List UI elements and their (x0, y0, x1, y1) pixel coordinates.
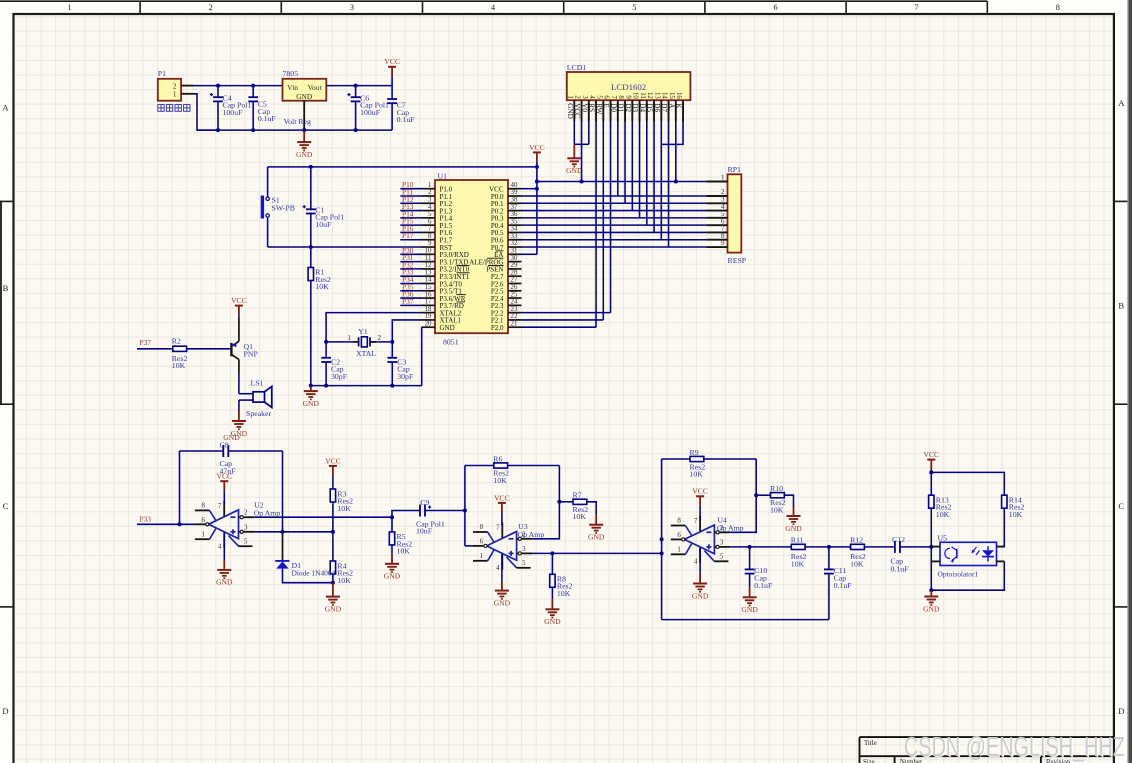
resistor R10 (756, 494, 770, 496)
opamp U4 (684, 525, 714, 554)
svg-text:5: 5 (244, 539, 248, 546)
wire XTAL2 to crystal (326, 313, 421, 342)
wire P0 rows mcu to RP1 (522, 195, 707, 197)
transistor Q1 PNP (230, 343, 232, 356)
svg-text:R7: R7 (573, 491, 582, 500)
title block (860, 736, 1114, 738)
wire VCC row to RP1 pin1 (537, 181, 706, 183)
svg-text:R12: R12 (850, 536, 863, 545)
svg-text:4: 4 (428, 204, 432, 211)
svg-text:9: 9 (428, 240, 432, 247)
svg-text:Speaker: Speaker (246, 409, 272, 418)
svg-text:1: 1 (480, 553, 484, 560)
label dianyuan-jiekou (158, 105, 164, 112)
svg-text:P37: P37 (402, 297, 414, 306)
svg-text:VCC: VCC (692, 487, 708, 496)
svg-text:12: 12 (425, 262, 432, 269)
svg-text:2: 2 (173, 82, 177, 90)
svg-text:U1: U1 (438, 171, 448, 180)
svg-text:GND: GND (923, 604, 940, 613)
svg-text:10K: 10K (337, 504, 351, 513)
svg-text:10uF: 10uF (315, 220, 332, 229)
svg-text:1: 1 (173, 91, 177, 99)
mcu U1 left pins (422, 188, 436, 190)
wire D1 to R4 bottom (283, 569, 333, 583)
wire P37 to R2 (137, 348, 173, 350)
svg-text:B: B (3, 283, 9, 293)
wire C8 right vertical to pin3 row (282, 451, 284, 532)
capacitor C4 (217, 86, 219, 98)
svg-text:10K: 10K (791, 559, 805, 568)
wire lcd E to P2.2 (610, 122, 612, 313)
svg-text:10K: 10K (770, 506, 784, 515)
svg-text:0.1uF: 0.1uF (397, 115, 416, 124)
svg-text:D3: D3 (631, 103, 639, 112)
svg-text:31: 31 (511, 248, 518, 255)
wire R1 to ground rail (310, 281, 312, 386)
svg-text:C9: C9 (420, 498, 429, 507)
resistor R3 (330, 489, 335, 502)
svg-text:39: 39 (511, 189, 518, 196)
svg-text:24: 24 (511, 299, 518, 306)
svg-text:8: 8 (617, 95, 624, 99)
wire VCC vertical at mcu (536, 162, 538, 254)
wire lcd RS to P2.0 (595, 122, 597, 328)
svg-text:17: 17 (425, 299, 432, 306)
svg-text:29: 29 (511, 262, 518, 269)
resistor R6 feedback (465, 465, 494, 467)
wire lcd pin16 K (661, 122, 683, 145)
wire U3 output row (532, 552, 661, 554)
ground GND below R8 (551, 599, 553, 609)
svg-text:A: A (667, 103, 675, 109)
svg-text:0.1uF: 0.1uF (891, 564, 910, 573)
wire mcu pin40 VCC row (522, 188, 537, 190)
opto pins (931, 546, 940, 548)
svg-text:7: 7 (428, 226, 432, 233)
svg-text:8: 8 (1056, 3, 1060, 12)
wire P1 pin1 down (194, 94, 219, 130)
svg-text:5: 5 (632, 3, 636, 12)
rp1 pin 1 (706, 181, 727, 183)
svg-text:32: 32 (511, 240, 518, 247)
svg-text:P17: P17 (402, 231, 414, 240)
ground GND below R5 (391, 554, 393, 564)
svg-text:D4: D4 (638, 103, 646, 112)
svg-text:GND: GND (216, 578, 233, 587)
svg-text:B: B (1118, 301, 1124, 311)
wire R11 to R12 (805, 546, 851, 548)
opto light arrows (973, 547, 977, 552)
svg-text:1: 1 (428, 182, 432, 189)
wire opto right bottom rail (931, 561, 1004, 590)
svg-text:19: 19 (425, 313, 432, 320)
svg-text:33: 33 (511, 233, 518, 240)
resistor R12 (851, 544, 865, 549)
svg-text:7: 7 (218, 503, 222, 510)
wire R13 to node (930, 508, 932, 547)
svg-text:11: 11 (639, 92, 646, 99)
svg-text:GND: GND (296, 92, 313, 101)
svg-text:34: 34 (511, 226, 518, 233)
lcd LCD1 body (567, 72, 691, 100)
svg-text:CSDN @ENGLISH_HHZ: CSDN @ENGLISH_HHZ (904, 731, 1125, 762)
capacitor C3 (391, 342, 393, 358)
svg-text:GND: GND (440, 324, 455, 332)
wire P1 pin2 to regulator (194, 85, 283, 87)
svg-text:10K: 10K (315, 282, 329, 291)
svg-text:30pF: 30pF (397, 372, 414, 381)
svg-text:5: 5 (522, 560, 526, 567)
svg-text:Op Amp: Op Amp (518, 530, 545, 539)
opamp U2 (209, 510, 239, 539)
svg-text:E: E (602, 103, 610, 108)
opamp U3 (487, 532, 517, 561)
ground GND below C10 (749, 587, 751, 597)
svg-text:35: 35 (511, 218, 518, 225)
svg-text:10K: 10K (690, 470, 704, 479)
svg-text:1: 1 (202, 532, 206, 539)
svg-text:28: 28 (511, 269, 518, 276)
svg-text:23: 23 (511, 306, 518, 313)
svg-text:PNP: PNP (244, 350, 259, 359)
svg-text:LS1: LS1 (251, 379, 264, 388)
wire mcu pin31 EA row (522, 253, 537, 255)
svg-text:R10: R10 (770, 484, 783, 493)
svg-text:7805: 7805 (283, 69, 299, 78)
resistor R8 (551, 553, 553, 574)
svg-text:V0: V0 (580, 103, 588, 112)
diode D1 (282, 532, 284, 561)
svg-text:7: 7 (694, 518, 698, 525)
svg-text:10K: 10K (1009, 510, 1023, 519)
svg-text:VCC: VCC (573, 103, 581, 118)
wire Q1 collector to speaker (238, 359, 240, 373)
svg-text:P1: P1 (158, 69, 166, 78)
svg-text:15: 15 (668, 92, 675, 99)
svg-text:22: 22 (511, 313, 518, 320)
wire feedback left vertical U4 (661, 459, 663, 620)
svg-text:RS: RS (588, 103, 596, 112)
svg-text:K: K (675, 103, 683, 109)
wire R12 to C12 (864, 546, 895, 548)
svg-text:1: 1 (67, 3, 71, 12)
wire R3 to R4 (332, 502, 334, 561)
ground GND below lcd (573, 144, 575, 158)
opto phototransistor (945, 548, 950, 558)
svg-text:4: 4 (694, 559, 698, 566)
connector P1 (158, 79, 181, 101)
ground GND below speaker (238, 411, 240, 421)
capacitor C2 (325, 342, 327, 358)
svg-text:2: 2 (209, 3, 213, 12)
svg-text:RP1: RP1 (728, 165, 742, 174)
ground GND below R7 (595, 515, 597, 525)
ground GND below R4 (332, 583, 334, 597)
svg-text:7: 7 (610, 95, 617, 99)
svg-text:P37: P37 (140, 338, 152, 347)
wire R9 right vertical to pin2 (730, 459, 756, 532)
svg-text:A: A (1118, 98, 1125, 108)
wire P2.1 row (522, 319, 604, 321)
svg-text:6: 6 (677, 532, 681, 539)
svg-text:GND: GND (544, 617, 561, 626)
svg-text:6: 6 (603, 95, 610, 99)
svg-text:8: 8 (677, 517, 681, 524)
svg-text:37: 37 (511, 204, 518, 211)
crystal Y1 XTAL (326, 341, 353, 343)
ground GND below 7805 (303, 130, 305, 142)
svg-text:Op Amp: Op Amp (254, 508, 281, 517)
svg-text:Title: Title (864, 740, 877, 747)
svg-text:8051: 8051 (443, 338, 459, 347)
svg-text:26: 26 (511, 284, 518, 291)
svg-text:20: 20 (425, 320, 432, 327)
svg-text:40: 40 (511, 182, 518, 189)
wire U2 pin2 row to C9 (254, 516, 392, 518)
wire lcd pin2 VCC (581, 122, 583, 182)
capacitor C10 (749, 547, 751, 570)
svg-text:7: 7 (915, 3, 919, 12)
svg-text:12: 12 (646, 92, 653, 99)
opto led (987, 546, 989, 550)
svg-text:3: 3 (244, 524, 248, 531)
speaker LS1 (253, 392, 265, 402)
svg-text:GND: GND (494, 598, 511, 607)
svg-text:3: 3 (720, 539, 724, 546)
wire U4 output row (730, 546, 791, 548)
svg-text:9: 9 (624, 95, 631, 99)
wire VCC rail to S1 C1 (268, 166, 537, 168)
svg-text:15: 15 (425, 284, 432, 291)
svg-text:D: D (1118, 706, 1124, 716)
svg-text:C8: C8 (220, 441, 229, 450)
wire R4 to ground (332, 574, 334, 583)
svg-text:5: 5 (720, 554, 724, 561)
svg-text:10K: 10K (397, 547, 411, 556)
svg-text:8: 8 (428, 233, 432, 240)
svg-text:D1: D1 (617, 103, 625, 112)
wire lcd pin1 pin3 ground tie (573, 122, 575, 145)
svg-text:10K: 10K (493, 476, 507, 485)
svg-text:GND: GND (566, 103, 574, 119)
svg-text:D2: D2 (624, 103, 632, 112)
svg-text:6: 6 (773, 3, 777, 12)
svg-text:4: 4 (491, 3, 495, 12)
svg-text:R9: R9 (690, 448, 699, 457)
capacitor C7 (391, 86, 393, 99)
svg-text:C: C (1118, 501, 1124, 511)
wire input vertical to U3 (464, 466, 466, 546)
svg-text:A: A (2, 103, 9, 113)
resistor R2 (173, 346, 187, 351)
wire XTAL1 to crystal (392, 320, 421, 342)
svg-text:RESP: RESP (728, 256, 747, 265)
wire regulator output rail (326, 85, 392, 87)
svg-text:18: 18 (425, 306, 432, 313)
wire regulator GND pin (303, 101, 305, 130)
wire P33 input (137, 523, 195, 525)
top ruler band (0, 0, 987, 2)
left ruler band (0, 200, 14, 202)
svg-text:C12: C12 (892, 535, 905, 544)
resistor R13 (929, 495, 934, 508)
svg-text:U5: U5 (938, 534, 948, 543)
svg-text:GND: GND (588, 533, 605, 542)
resistor R14 (1002, 495, 1007, 508)
wire S1 to RST row (267, 217, 269, 247)
svg-text:3: 3 (581, 95, 588, 99)
svg-text:VCC: VCC (529, 143, 545, 152)
switch S1 SW-PB (267, 167, 269, 197)
svg-text:GND: GND (303, 399, 320, 408)
wire R2 to Q1 base (187, 348, 231, 350)
svg-text:13: 13 (653, 92, 660, 99)
wire P2.0 row (522, 326, 597, 328)
svg-text:SW-PB: SW-PB (272, 204, 295, 213)
svg-text:10K: 10K (850, 559, 864, 568)
svg-text:P33: P33 (140, 514, 152, 523)
wire P2.2 row (522, 312, 611, 314)
svg-text:0.1uF: 0.1uF (754, 581, 773, 590)
svg-text:100uF: 100uF (223, 108, 244, 117)
wire VCC branch to R14 (931, 472, 1004, 495)
ground GND below opto (930, 590, 932, 596)
svg-text:6: 6 (202, 517, 206, 524)
wire opto left to ground (930, 547, 932, 590)
svg-text:100uF: 100uF (360, 108, 381, 117)
wire R14 down to opto (997, 508, 1005, 546)
svg-text:LCD1: LCD1 (567, 63, 587, 72)
svg-text:47nF: 47nF (220, 466, 237, 475)
svg-text:Volt Reg: Volt Reg (284, 117, 311, 126)
svg-text:Optoisolator1: Optoisolator1 (938, 569, 979, 578)
svg-text:4: 4 (588, 95, 595, 99)
svg-text:3: 3 (428, 196, 432, 203)
mcu U1 right pins (508, 188, 522, 190)
svg-text:Diode 1N4004: Diode 1N4004 (292, 568, 336, 577)
svg-text:38: 38 (511, 196, 518, 203)
svg-text:GND: GND (325, 604, 342, 613)
svg-text:D0: D0 (609, 103, 617, 112)
svg-text:C: C (3, 501, 9, 511)
svg-text:2: 2 (428, 189, 432, 196)
lcd pins and rotated labels (573, 100, 575, 121)
svg-text:0.1uF: 0.1uF (258, 114, 277, 123)
svg-text:5: 5 (595, 95, 602, 99)
svg-text:6: 6 (480, 539, 484, 546)
svg-text:1: 1 (347, 334, 351, 342)
svg-text:4: 4 (496, 565, 500, 572)
svg-text:16: 16 (675, 92, 682, 99)
window edge strip (1128, 0, 1132, 763)
resistor R9 feedback (662, 458, 690, 460)
svg-text:GND: GND (296, 150, 313, 159)
svg-text:30: 30 (511, 255, 518, 262)
svg-text:D7: D7 (660, 103, 668, 112)
resistor R5 (391, 517, 393, 532)
svg-text:3: 3 (350, 3, 354, 12)
svg-text:VCC: VCC (384, 57, 400, 66)
svg-text:GND: GND (785, 524, 802, 533)
svg-text:27: 27 (511, 277, 518, 284)
svg-text:36: 36 (511, 211, 518, 218)
rp1 pins 2-9 (706, 195, 727, 197)
svg-text:D: D (2, 706, 8, 716)
mcu U1 8051 body (435, 180, 508, 333)
svg-text:30pF: 30pF (331, 372, 348, 381)
resistor R7 (559, 501, 573, 503)
wire lcd RW to P2.1 (602, 122, 604, 320)
svg-text:Op Amp: Op Amp (717, 524, 744, 533)
svg-text:14: 14 (425, 277, 432, 284)
capacitor C6 (355, 86, 357, 98)
svg-text:25: 25 (511, 291, 518, 298)
svg-text:5: 5 (428, 211, 432, 218)
capacitor C12 (894, 541, 896, 553)
wire bottom feedback rail (662, 619, 829, 621)
svg-text:8: 8 (480, 524, 484, 531)
svg-text:10K: 10K (172, 361, 186, 370)
svg-text:3: 3 (522, 546, 526, 553)
mcu left net stubs P10-P17 P30-P37 (400, 188, 421, 190)
svg-text:9: 9 (721, 239, 725, 247)
svg-text:VCC: VCC (231, 296, 247, 305)
svg-text:21: 21 (511, 320, 518, 327)
svg-text:1: 1 (677, 547, 681, 554)
svg-text:2: 2 (378, 334, 382, 342)
svg-text:2: 2 (244, 510, 248, 517)
svg-text:R2: R2 (172, 337, 181, 346)
svg-text:10K: 10K (573, 512, 587, 521)
svg-text:LCD1602: LCD1602 (611, 82, 646, 92)
resistor pack RP1 body (728, 174, 742, 252)
wire U2 pin3 row (254, 531, 333, 533)
svg-text:10uF: 10uF (416, 527, 433, 536)
wire speaker to ground (238, 400, 240, 411)
resistor R4 (330, 561, 335, 574)
svg-text:7: 7 (496, 525, 500, 532)
svg-text:XTAL: XTAL (356, 349, 376, 358)
capacitor C1 (310, 167, 312, 209)
svg-text:10K: 10K (557, 589, 571, 598)
capacitor C11 (828, 547, 830, 570)
ground GND below U3 (501, 555, 503, 581)
ground GND below U2 (223, 533, 225, 560)
regulator 7805 (283, 79, 327, 101)
wire mcu GND pin20 to rail (421, 327, 423, 385)
svg-text:R6: R6 (493, 454, 502, 463)
svg-text:Size: Size (863, 759, 875, 763)
svg-text:1: 1 (566, 95, 573, 98)
svg-text:0.1uF: 0.1uF (834, 581, 853, 590)
svg-text:D5: D5 (646, 103, 654, 112)
svg-text:2: 2 (574, 95, 581, 99)
svg-text:GND: GND (566, 166, 583, 175)
svg-text:R11: R11 (791, 536, 804, 545)
svg-text:VCC: VCC (494, 493, 510, 502)
crystal ground rail (311, 385, 422, 387)
svg-text:GND: GND (741, 605, 758, 614)
svg-text:D6: D6 (653, 103, 661, 112)
wire lcd data pins down (617, 122, 619, 196)
svg-text:10K: 10K (337, 576, 351, 585)
svg-text:VCC: VCC (923, 450, 939, 459)
capacitor C5 (252, 86, 254, 98)
capacitor C8 feedback (179, 451, 181, 524)
wire lcd pin15 A to VCC row (675, 122, 677, 182)
svg-text:Y1: Y1 (358, 327, 368, 336)
